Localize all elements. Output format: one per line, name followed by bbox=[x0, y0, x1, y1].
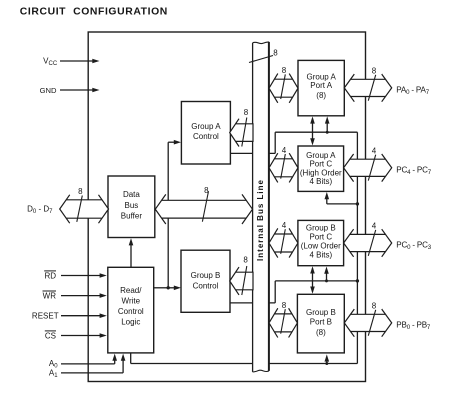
bus width 8 on buffer-bus arrow bbox=[202, 191, 208, 222]
svg-text:8: 8 bbox=[78, 187, 83, 196]
bus width 8 outer arrow y=87.9 bbox=[368, 75, 375, 101]
svg-text:(8): (8) bbox=[316, 91, 326, 100]
wire WR input bbox=[61, 295, 101, 297]
block Group B Control bbox=[181, 250, 230, 312]
svg-text:4 Bits): 4 Bits) bbox=[309, 177, 332, 186]
wire Vcc input bbox=[60, 60, 93, 62]
chip outline box bbox=[88, 32, 365, 382]
bus arrow Port A to PA pins bbox=[344, 74, 391, 102]
wire Port C lower / Port B interconnect bbox=[312, 269, 314, 292]
bus arrow Port B to PB pins bbox=[344, 309, 391, 337]
svg-text:Bus: Bus bbox=[125, 201, 139, 210]
svg-text:8: 8 bbox=[244, 108, 249, 117]
wire Port C upper tap bbox=[327, 203, 358, 205]
svg-text:(High Order: (High Order bbox=[300, 168, 342, 177]
bus arrow data bus buffer to internal bus bbox=[155, 194, 252, 224]
svg-text:Internal Bus Line: Internal Bus Line bbox=[256, 179, 265, 261]
block Group A Control bbox=[181, 102, 230, 165]
wire A0 input bbox=[61, 363, 115, 365]
svg-text:Port C: Port C bbox=[309, 233, 332, 242]
svg-text:RD: RD bbox=[44, 271, 56, 280]
svg-text:Group B: Group B bbox=[191, 271, 221, 280]
svg-text:PC0 - PC3: PC0 - PC3 bbox=[396, 241, 431, 252]
wire Port A / Port C upper interconnect bbox=[312, 119, 314, 143]
internal bus line (vertical bus) bbox=[253, 42, 269, 372]
bus arrow D0-D7 external bbox=[60, 195, 109, 223]
svg-text:Buffer: Buffer bbox=[121, 212, 143, 221]
bus arrow internal bus to Port C upper bbox=[269, 153, 298, 182]
svg-text:4: 4 bbox=[372, 146, 377, 155]
bus width 4 outer arrow y=167.8 bbox=[368, 155, 375, 181]
bus arrow internal bus to Group A Control bbox=[230, 119, 253, 147]
wire R/W logic to group controls bbox=[154, 287, 169, 289]
svg-text:8: 8 bbox=[372, 67, 377, 76]
svg-text:Group B: Group B bbox=[306, 308, 336, 317]
bus arrow Port C upper to PC pins bbox=[344, 154, 392, 182]
svg-text:(8): (8) bbox=[316, 328, 326, 337]
svg-text:8: 8 bbox=[372, 302, 377, 311]
block Group B Port C lower bbox=[298, 220, 344, 265]
wire R/W logic bottom control line bbox=[130, 353, 132, 364]
svg-text:PB0 - PB7: PB0 - PB7 bbox=[396, 321, 431, 332]
svg-text:WR: WR bbox=[43, 292, 57, 301]
wire A1 input bbox=[61, 372, 123, 374]
svg-text:Group A: Group A bbox=[307, 72, 337, 81]
svg-text:Read/: Read/ bbox=[120, 286, 142, 295]
wire Port A control arrow bbox=[326, 121, 328, 132]
svg-text:RESET: RESET bbox=[32, 312, 59, 321]
svg-text:Control: Control bbox=[193, 281, 219, 290]
svg-text:PA0 - PA7: PA0 - PA7 bbox=[396, 86, 429, 97]
svg-text:Port B: Port B bbox=[310, 318, 332, 327]
bus arrow internal bus to Port B bbox=[269, 308, 297, 337]
bus width 4 outer arrow y=243 bbox=[368, 230, 375, 256]
svg-text:Group A: Group A bbox=[191, 122, 221, 131]
svg-text:CIRCUIT CONFIGURATION: CIRCUIT CONFIGURATION bbox=[20, 7, 168, 18]
bus width 8 on D0-D7 arrow bbox=[77, 196, 83, 222]
svg-text:A1: A1 bbox=[49, 369, 58, 380]
svg-text:Logic: Logic bbox=[121, 318, 140, 327]
svg-text:VCC: VCC bbox=[43, 56, 58, 67]
node trunk tap upper bbox=[356, 202, 359, 205]
wire Port C lower control arrow bbox=[326, 272, 328, 281]
wire Port B control arrow bbox=[326, 359, 328, 364]
bus width 8 inner arrow y=322.9 bbox=[281, 309, 286, 334]
wire GND input bbox=[60, 89, 93, 91]
bus width 8 on Group A Control arrow bbox=[242, 118, 247, 147]
node junction R/W control split bbox=[167, 286, 170, 289]
svg-text:Write: Write bbox=[122, 297, 141, 306]
svg-text:8: 8 bbox=[282, 301, 287, 310]
svg-text:8: 8 bbox=[243, 256, 248, 265]
svg-text:8: 8 bbox=[273, 49, 278, 58]
svg-text:4 Bits): 4 Bits) bbox=[309, 251, 332, 260]
bus width 8 outer arrow y=322.9 bbox=[368, 310, 375, 336]
wire R/W logic to Data Bus Buffer bbox=[130, 243, 132, 267]
svg-text:D0 - D7: D0 - D7 bbox=[27, 205, 53, 216]
bus arrow internal bus to Port A bbox=[269, 74, 298, 103]
svg-text:4: 4 bbox=[282, 146, 287, 155]
svg-text:8: 8 bbox=[204, 186, 209, 195]
wire CS input bbox=[61, 335, 101, 337]
svg-text:4: 4 bbox=[372, 222, 377, 231]
bus width 8 on Group B Control arrow bbox=[242, 266, 247, 295]
svg-text:Control: Control bbox=[193, 132, 219, 141]
wire RESET input bbox=[61, 315, 101, 317]
svg-text:4: 4 bbox=[282, 221, 287, 230]
bus width 8 inner arrow y=88.2 bbox=[281, 74, 286, 99]
svg-text:GND: GND bbox=[40, 86, 57, 95]
bus arrow Port C lower to PC pins bbox=[344, 229, 392, 257]
svg-text:PC4 - PC7: PC4 - PC7 bbox=[396, 165, 431, 176]
wire Group B Control output bbox=[230, 302, 275, 304]
bus arrow internal bus to Port C lower bbox=[269, 228, 298, 257]
block Group A Port A bbox=[298, 60, 344, 115]
wire Group A Control output bbox=[230, 152, 275, 154]
svg-text:8: 8 bbox=[282, 66, 287, 75]
bus arrow internal bus to Group B Control bbox=[230, 267, 253, 295]
svg-text:Control: Control bbox=[118, 307, 144, 316]
bus width 4 inner arrow y=243 bbox=[281, 229, 286, 254]
svg-text:CS: CS bbox=[45, 331, 56, 340]
node trunk tap lower bbox=[356, 279, 359, 282]
wire RD input bbox=[61, 275, 101, 277]
svg-text:Port C: Port C bbox=[309, 160, 332, 169]
wire control trunk vertical bbox=[356, 132, 358, 363]
block Group A Port C upper bbox=[298, 146, 344, 191]
svg-text:Data: Data bbox=[123, 190, 140, 199]
block Group B Port B bbox=[297, 294, 344, 353]
svg-text:(Low Order: (Low Order bbox=[301, 242, 341, 251]
block Data Bus Buffer bbox=[108, 176, 155, 238]
block Read/Write Control Logic bbox=[108, 267, 154, 353]
bus width 8 at internal bus top bbox=[249, 56, 273, 63]
svg-text:Port A: Port A bbox=[310, 81, 332, 90]
svg-text:Group B: Group B bbox=[306, 224, 336, 233]
bus width 4 inner arrow y=167.8 bbox=[281, 154, 286, 179]
